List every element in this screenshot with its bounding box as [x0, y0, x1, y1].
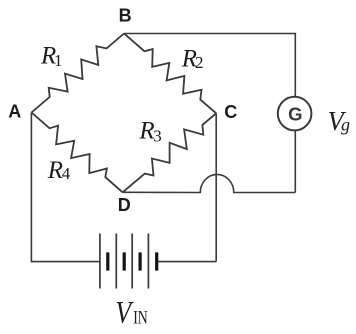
svg-text:g: g [341, 115, 350, 135]
svg-text:D: D [118, 195, 131, 215]
svg-text:R: R [47, 157, 63, 184]
svg-text:B: B [119, 5, 132, 25]
svg-text:2: 2 [195, 53, 204, 72]
svg-text:C: C [224, 102, 237, 122]
svg-text:A: A [8, 102, 21, 122]
svg-text:IN: IN [133, 307, 148, 328]
svg-text:1: 1 [54, 51, 63, 70]
svg-text:3: 3 [153, 126, 162, 145]
svg-text:V: V [115, 294, 134, 329]
svg-text:G: G [288, 103, 302, 124]
svg-text:4: 4 [62, 164, 71, 183]
